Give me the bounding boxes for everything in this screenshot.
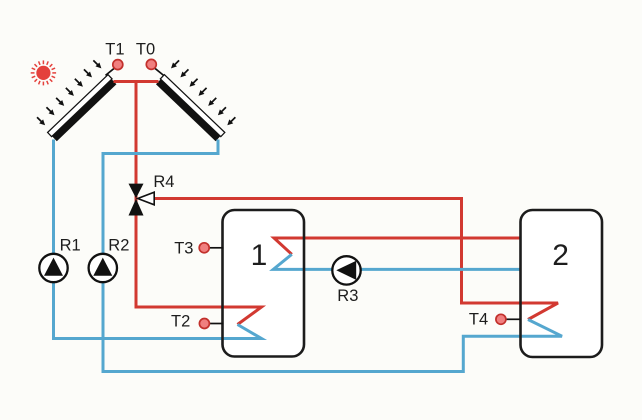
pump R1 (39, 254, 67, 282)
svg-text:R2: R2 (108, 237, 129, 255)
tank 2 body (521, 210, 603, 357)
wire: hot branch from valve R4 to tank 2 (153, 199, 521, 304)
heat exchanger coil tank 1 lower, hot side (223, 307, 262, 325)
sensor T2 (199, 319, 223, 329)
svg-text:1: 1 (251, 239, 268, 272)
pump R2 (89, 254, 117, 282)
wire: hot drop from header through valve R4 to tank 1 (136, 82, 223, 308)
sensor T0 (146, 59, 163, 75)
sensor T4 (496, 314, 521, 324)
tank 1 body (223, 210, 305, 357)
svg-text:T2: T2 (171, 313, 190, 331)
irradiance arrows on right collector (169, 58, 237, 127)
pump R3 (332, 256, 360, 284)
wire: hot transfer from tank 2 to tank 1 upper coil (304, 237, 521, 240)
heat exchanger coil tank 1 upper, hot side (274, 238, 304, 254)
sensor T3 (199, 243, 223, 253)
irradiance arrows on left collector (35, 58, 103, 127)
valve R4 (129, 184, 155, 216)
wire: hot header between collector tops (114, 80, 159, 83)
sensor T1 (106, 60, 123, 76)
svg-text:T3: T3 (174, 240, 193, 258)
svg-text:T4: T4 (469, 311, 488, 329)
sun (31, 60, 56, 85)
solar collector left (48, 75, 117, 142)
svg-text:R4: R4 (153, 173, 174, 191)
svg-text:R1: R1 (60, 237, 81, 255)
svg-text:2: 2 (552, 239, 569, 272)
wire: cold return from tank 2 through pump R2 to right collector (103, 140, 521, 372)
solar collector right (156, 75, 225, 142)
tank 1 outline (223, 210, 305, 357)
tank 2 outline (521, 210, 603, 357)
heat exchanger coil tank 1 lower, cold side (223, 325, 262, 339)
heat exchanger coil tank 1 upper, cold side (273, 254, 304, 269)
svg-text:R3: R3 (337, 287, 358, 305)
wire: cold transfer from tank 1 upper coil through pump R3 to tank 2 (304, 268, 521, 271)
svg-text:T1: T1 (105, 41, 124, 59)
wire: cold return from tank 1 through pump R1 to left collector (54, 140, 224, 339)
heat exchanger coil tank 2, cold side (521, 320, 563, 337)
svg-text:T0: T0 (136, 41, 155, 59)
heat exchanger coil tank 2, hot side (521, 303, 559, 320)
